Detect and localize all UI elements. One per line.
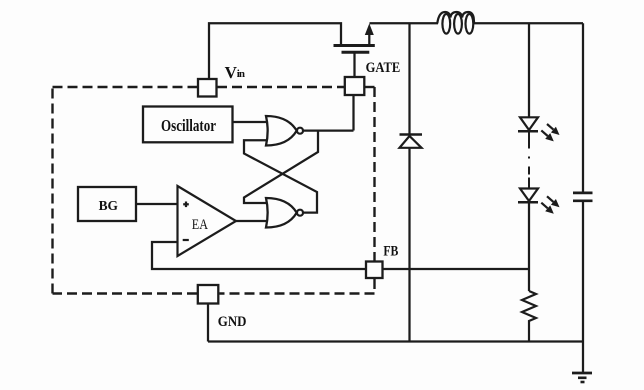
svg-text:V: V [225, 63, 238, 82]
svg-text:GND: GND [218, 314, 247, 330]
svg-text:EA: EA [192, 217, 208, 233]
svg-text:Oscillator: Oscillator [161, 116, 216, 135]
svg-text:BG: BG [99, 199, 118, 214]
svg-text:FB: FB [383, 243, 398, 259]
svg-text:in: in [237, 68, 245, 80]
svg-text:GATE: GATE [366, 60, 401, 76]
